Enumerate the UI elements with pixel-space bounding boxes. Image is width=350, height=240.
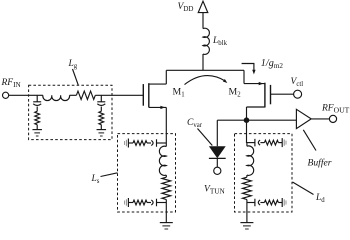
wire — [36, 107, 38, 112]
wire — [128, 202, 133, 204]
resistor Lg shunt right — [99, 111, 104, 124]
terminal RF_IN — [3, 92, 9, 98]
pointer line Ls — [101, 173, 118, 177]
varactor cathode bar — [209, 157, 226, 159]
resistor Ld shunt top — [264, 140, 278, 145]
node junction dot — [244, 117, 250, 123]
wire — [36, 125, 38, 130]
wire M1 drain to rail — [165, 70, 167, 84]
M2 gate bar — [270, 85, 272, 104]
wire — [246, 175, 248, 177]
resistor Ls shunt top — [133, 141, 147, 146]
inductor model box Ld — [235, 134, 293, 212]
substrate terminal Ls top — [127, 139, 129, 148]
wire varactor to VTUN — [216, 158, 218, 167]
curved signal arrow — [185, 76, 226, 85]
svg-text:Lblk: Lblk — [212, 36, 228, 47]
svg-text:Buffer: Buffer — [308, 158, 332, 169]
wire — [247, 142, 255, 144]
M1 source lead — [149, 106, 167, 108]
svg-text:VTUN: VTUN — [204, 185, 226, 196]
wire M1 source down to Ls — [165, 107, 167, 143]
M1 gate bar — [142, 84, 144, 106]
1/gm2 arrow head — [252, 70, 255, 75]
svg-text:RFIN: RFIN — [1, 78, 22, 89]
capacitor Lg shunt left — [33, 101, 41, 103]
M2 drain lead — [244, 83, 265, 85]
wire — [29, 94, 43, 96]
M2 source lead — [247, 106, 265, 108]
inductor Lblk — [203, 28, 209, 54]
curved arrow head — [223, 79, 227, 83]
wire node down into Ld — [246, 120, 248, 143]
ground Lg left — [32, 129, 42, 131]
wire — [100, 125, 102, 130]
wire — [70, 94, 77, 96]
wire — [100, 107, 102, 112]
inductor model box Lg — [29, 85, 112, 139]
svg-text:VDD: VDD — [178, 2, 194, 13]
capacitor Lg shunt right — [97, 101, 105, 103]
terminal RF_OUT — [329, 115, 336, 122]
wire Ld to ground — [246, 200, 248, 223]
M1 source arrow — [160, 106, 165, 109]
resistor Lg shunt left — [35, 111, 40, 124]
resistor Ld shunt bottom — [264, 200, 278, 205]
wire buffer to RF_OUT — [311, 118, 329, 120]
pointer line Ld — [293, 182, 314, 195]
wire drain rail — [166, 69, 244, 71]
wire Lblk to rail — [202, 54, 204, 70]
svg-text:Cvar: Cvar — [187, 118, 203, 129]
pointer line Cvar — [198, 129, 213, 146]
inductor Lg series — [43, 95, 70, 100]
pointer line Buffer — [303, 130, 316, 151]
capacitor Ld shunt top — [254, 139, 256, 147]
wire — [278, 142, 282, 144]
wire — [100, 95, 102, 102]
M1 drain lead — [149, 83, 167, 85]
svg-text:Ls: Ls — [91, 174, 100, 185]
substrate terminal Ls bottom — [127, 198, 129, 207]
wire M2 source down to node — [246, 107, 248, 120]
resistor Lg series loss — [76, 91, 95, 99]
wire — [260, 142, 264, 144]
wire — [36, 95, 38, 102]
capacitor Ls shunt top — [156, 139, 158, 147]
pointer line Lg — [73, 69, 79, 85]
resistor Ls series loss — [162, 177, 171, 199]
wire — [246, 143, 248, 146]
M2 channel bar — [264, 83, 266, 108]
svg-text:Vctl: Vctl — [291, 77, 304, 88]
substrate terminal Ld top — [281, 138, 283, 147]
resistor Ld series loss — [243, 177, 252, 199]
ground Ls — [160, 222, 173, 224]
capacitor Ld shunt bottom — [254, 199, 256, 207]
ground Lg right — [97, 129, 107, 131]
inductor Ld series — [247, 146, 254, 175]
VDD triangle — [198, 1, 208, 12]
annotation arrow 1/gm2 — [242, 64, 254, 71]
resistor Ls shunt bottom — [133, 200, 147, 205]
svg-text:M2: M2 — [229, 87, 242, 99]
capacitor Ls shunt bottom — [156, 199, 158, 207]
wire — [247, 202, 255, 204]
svg-text:M1: M1 — [173, 87, 185, 99]
wire rail down to M2 drain — [243, 70, 245, 83]
wire varactor stem — [216, 120, 218, 146]
substrate terminal Ld bottom — [281, 198, 283, 207]
wire Ls to ground — [165, 200, 167, 223]
wire — [147, 142, 151, 144]
wire node to varactor — [217, 119, 246, 121]
M2 gate lead to Vctl — [271, 93, 294, 95]
wire — [165, 143, 167, 147]
varactor diode triangle — [209, 146, 226, 158]
svg-text:RFOUT: RFOUT — [321, 104, 350, 115]
wire — [157, 142, 166, 144]
terminal Vctl — [294, 90, 302, 98]
svg-text:Lg: Lg — [68, 59, 78, 70]
wire Lg to M1 gate — [95, 94, 143, 96]
buffer amplifier triangle — [296, 109, 311, 128]
wire — [165, 175, 167, 177]
wire RF_IN to Lg box — [9, 94, 29, 96]
svg-text:Ld: Ld — [315, 193, 325, 204]
terminal VTUN — [214, 167, 221, 174]
inductor model box Ls — [118, 134, 176, 212]
wire — [157, 202, 166, 204]
M2 drain arrow — [259, 82, 264, 85]
wire VDD to Lblk — [202, 13, 204, 29]
ground Ld — [240, 222, 253, 224]
wire — [278, 202, 282, 204]
wire — [128, 142, 133, 144]
wire — [260, 202, 264, 204]
M1 channel bar — [148, 83, 150, 107]
svg-text:1/gm2: 1/gm2 — [261, 58, 284, 70]
wire node to buffer — [247, 119, 297, 121]
inductor Ls series — [159, 146, 166, 175]
wire — [147, 202, 151, 204]
